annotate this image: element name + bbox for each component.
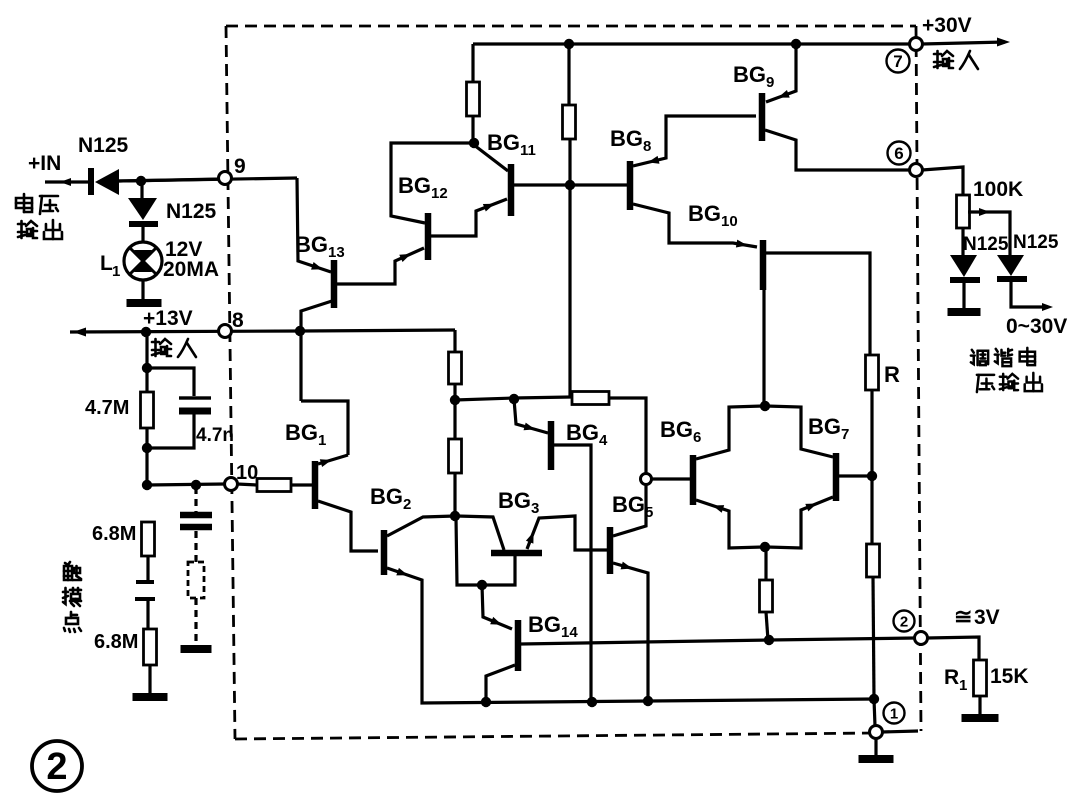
svg-text:≅: ≅ (954, 604, 972, 629)
svg-text:N125: N125 (1013, 232, 1059, 253)
svg-text:8: 8 (232, 309, 244, 332)
svg-text:1: 1 (959, 677, 967, 694)
svg-text:N125: N125 (78, 134, 129, 157)
svg-text:20MA: 20MA (163, 258, 219, 281)
svg-text:6.8M: 6.8M (94, 631, 138, 653)
svg-text:7: 7 (893, 52, 902, 71)
svg-text:R: R (944, 666, 959, 689)
svg-text:6.8M: 6.8M (92, 523, 136, 545)
svg-text:100K: 100K (973, 178, 1023, 201)
svg-text:N125: N125 (963, 234, 1009, 255)
svg-text:4.7n: 4.7n (196, 425, 234, 446)
svg-text:1: 1 (112, 263, 120, 280)
svg-text:+13V: +13V (143, 307, 193, 330)
svg-text:N125: N125 (166, 200, 217, 223)
svg-text:+IN: +IN (28, 152, 61, 175)
svg-text:+30V: +30V (922, 14, 972, 37)
svg-text:R: R (884, 362, 900, 387)
svg-text:3V: 3V (974, 606, 1000, 629)
svg-text:15K: 15K (990, 665, 1029, 688)
svg-text:0~30V: 0~30V (1006, 315, 1067, 338)
svg-text:6: 6 (894, 144, 903, 163)
svg-text:10: 10 (236, 462, 258, 484)
svg-text:1: 1 (890, 705, 898, 722)
svg-text:2: 2 (46, 746, 67, 788)
svg-text:2: 2 (900, 613, 908, 630)
svg-text:4.7M: 4.7M (85, 397, 129, 419)
svg-text:9: 9 (234, 155, 246, 178)
